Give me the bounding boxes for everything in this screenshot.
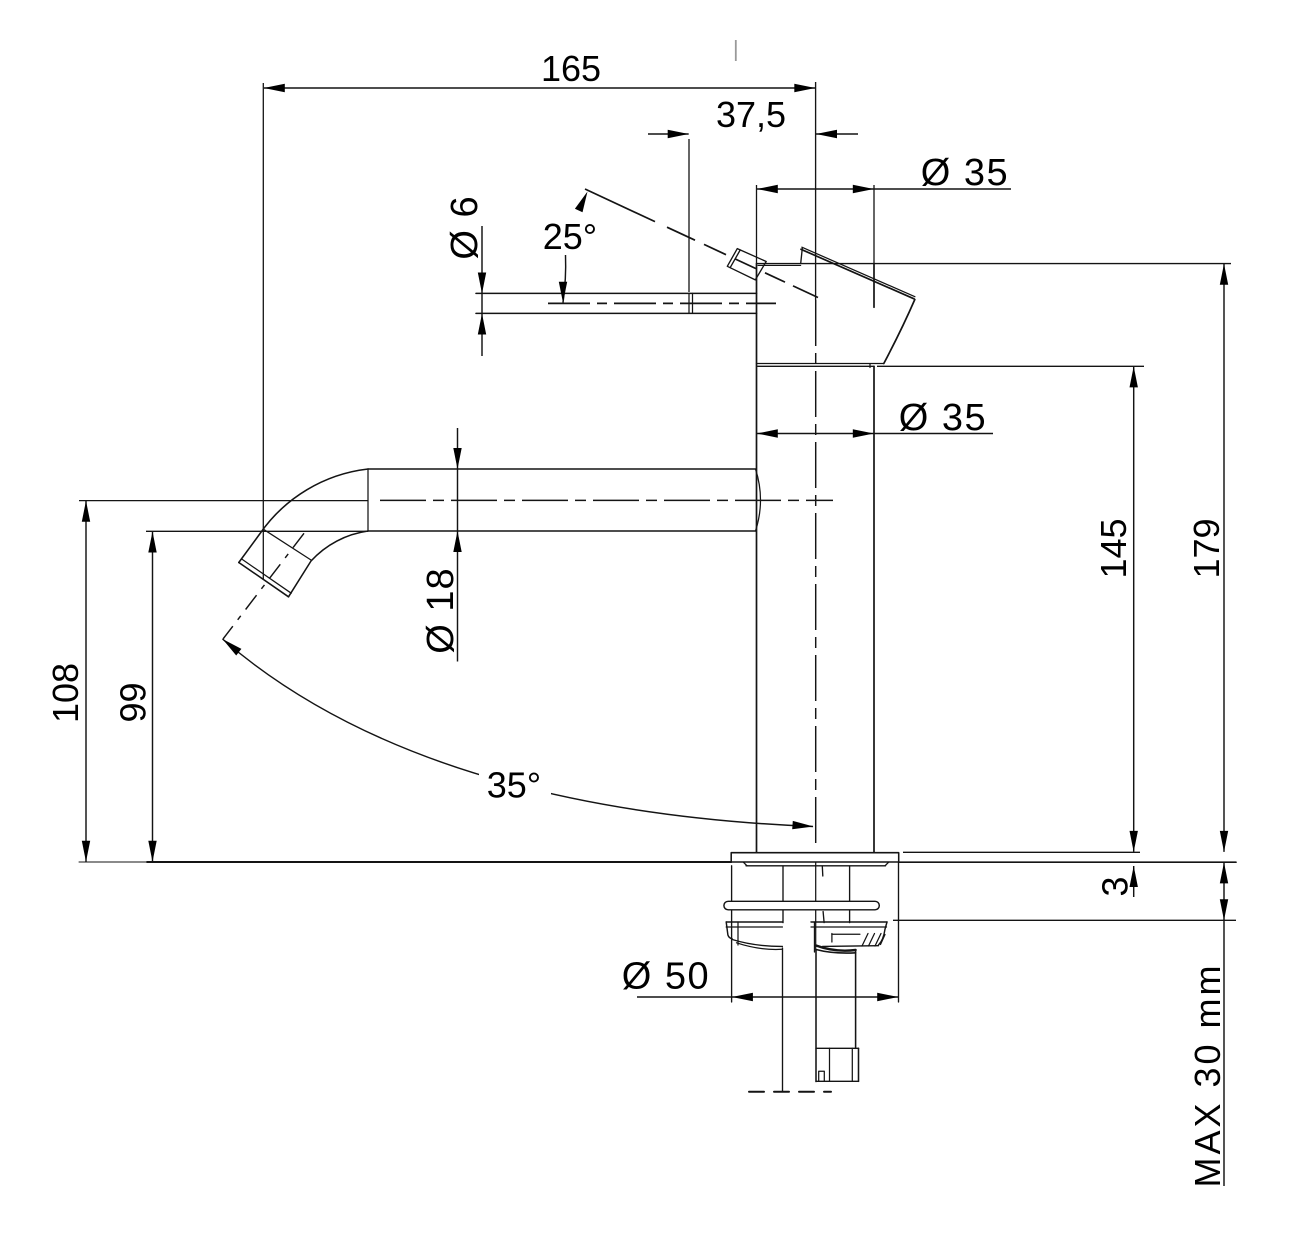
svg-text:108: 108: [45, 663, 86, 723]
svg-text:165: 165: [541, 48, 601, 89]
svg-text:Ø 35: Ø 35: [899, 397, 987, 439]
svg-text:MAX 30 mm: MAX 30 mm: [1187, 962, 1228, 1187]
svg-text:Ø 35: Ø 35: [921, 152, 1009, 194]
svg-text:25°: 25°: [543, 216, 597, 257]
svg-text:145: 145: [1093, 518, 1134, 578]
svg-text:Ø 50: Ø 50: [622, 956, 710, 998]
svg-text:99: 99: [113, 682, 154, 722]
svg-text:37,5: 37,5: [716, 94, 786, 135]
svg-text:Ø 18: Ø 18: [420, 567, 462, 653]
svg-text:35°: 35°: [487, 765, 541, 806]
svg-text:179: 179: [1186, 518, 1227, 578]
svg-text:3: 3: [1095, 876, 1136, 896]
svg-text:Ø 6: Ø 6: [444, 195, 486, 259]
